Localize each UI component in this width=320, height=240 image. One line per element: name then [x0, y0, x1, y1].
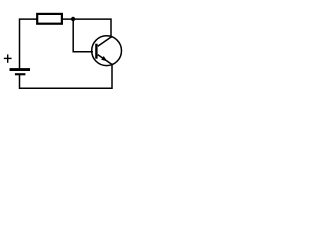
- transistor Q1 (NPN): [92, 36, 122, 66]
- junction node (dot): [71, 17, 75, 21]
- transistor Q1 emitter stroke: [98, 55, 113, 65]
- transistor Q1 body circle: [92, 36, 122, 66]
- resistor R1: [37, 14, 62, 24]
- wire: junction down to transistor base: [73, 19, 92, 52]
- wire: emitter down, along bottom, to battery - terminal: [20, 64, 113, 88]
- transistor Q1 collector stroke: [98, 37, 111, 46]
- wire: battery + terminal up and over to resistor: [20, 19, 37, 68]
- transistor Q1 base bar: [95, 44, 97, 59]
- battery B1 polarity label +: [4, 54, 12, 62]
- wire: resistor to junction to collector corner: [63, 19, 111, 37]
- battery B1 positive plate (long): [10, 68, 31, 71]
- transistor Q1 emitter arrowhead: [101, 56, 107, 61]
- battery B1 negative plate (short): [15, 73, 26, 75]
